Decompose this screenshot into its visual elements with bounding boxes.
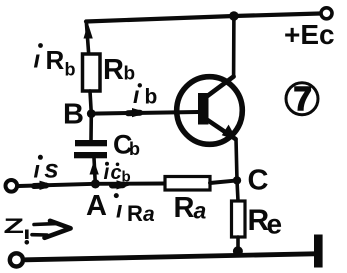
current arrow i_Ra (right) [117,180,132,189]
ground termination bar [314,235,323,268]
svg-text:a: a [143,203,155,226]
node junction top [229,11,239,21]
label Rb [103,54,135,86]
wire input to node A [19,184,95,186]
svg-text:R: R [127,201,143,226]
resistor Ra [165,177,210,191]
emitter arrow [222,125,237,140]
label i_Rb [34,43,76,79]
svg-text:7: 7 [294,80,312,117]
resistor Rb [83,54,101,91]
wire bottom rail [26,254,315,260]
circled 7 badge [286,83,318,115]
terminal +Ec [321,8,332,19]
svg-text:C: C [248,165,269,197]
current arrow i_cb (up) [90,161,99,175]
terminal input [6,180,18,192]
label Ra [174,192,207,224]
svg-text:e: e [267,209,283,240]
wire node C to Re [237,180,238,201]
transistor Q1 circle [177,77,243,145]
svg-text:A: A [86,190,107,222]
node junction bottom [233,246,243,256]
label i_s [34,154,59,184]
wire collector vertical [232,16,236,77]
node C [233,176,241,184]
svg-text:ı: ı [34,157,40,183]
svg-text:s: s [44,154,58,184]
label Cb [113,130,140,160]
terminal bottom left [10,253,23,266]
svg-text:Z: Z [4,214,25,237]
svg-text:+Ec: +Ec [284,19,335,50]
label Z_i [4,214,30,244]
node B [87,109,96,118]
svg-text:ı: ı [34,47,41,74]
wire capacitor to node A [94,158,95,184]
wire from rail to Rb [86,22,88,55]
wire emitter to node C [236,139,237,180]
capacitor Cb plate bottom [74,152,107,158]
svg-text:b: b [145,86,158,109]
current arrow i_Rb (up) [84,24,93,39]
resistor Re [232,201,246,237]
label i_b [133,82,157,109]
impedance arrow Zi (double arrow right) [34,222,56,226]
svg-text:a: a [194,197,207,223]
emitter line [206,119,236,139]
label i_Ra [114,193,155,226]
transistor base bar [198,93,209,125]
wire top rail [86,14,320,22]
capacitor Cb plate top [75,140,107,146]
collector line [206,77,234,98]
label Re [248,204,283,240]
wire Re to bottom rail [236,237,240,252]
wire Rb to node B [90,91,91,114]
svg-text:R: R [174,192,195,224]
svg-text:B: B [63,99,84,131]
wire base (B to transistor) [91,112,198,114]
svg-text:R: R [46,45,65,75]
label i_cb [104,161,131,186]
wire Ra to node C [210,180,237,183]
svg-text:R: R [103,54,124,86]
svg-text:b: b [65,60,76,80]
node A (open dot) [92,181,98,187]
wire B to capacitor [89,114,93,140]
svg-text:b: b [129,139,140,159]
current arrow i_s (right) [40,181,56,190]
current arrow i_b (right) [132,108,148,117]
svg-text:ı: ı [116,197,122,223]
wire node A to Ra [95,182,165,186]
